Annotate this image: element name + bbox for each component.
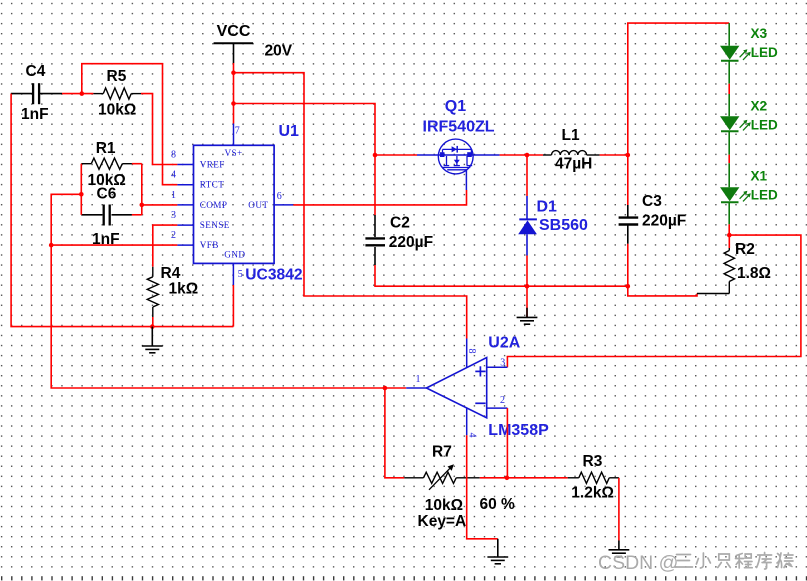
U1 pin stub COMP pin1 [177, 204, 193, 206]
svg-text:IRF540ZL: IRF540ZL [423, 119, 495, 136]
svg-text:R3: R3 [583, 453, 603, 470]
op-amp U1 UC3842 box [194, 145, 275, 263]
wire VFB junction down to op-amp output [51, 245, 406, 388]
svg-text:CSDN @: CSDN @ [598, 552, 678, 574]
svg-text:20V: 20V [265, 43, 293, 60]
svg-text:U1: U1 [279, 123, 300, 140]
svg-text:3: 3 [500, 357, 505, 368]
svg-text:2: 2 [171, 230, 176, 241]
svg-text:220µF: 220µF [389, 234, 433, 251]
svg-text:VCC: VCC [217, 23, 251, 40]
wire LED chain top lead [728, 23, 730, 46]
svg-text:10kΩ: 10kΩ [98, 101, 136, 118]
svg-text:R4: R4 [161, 265, 181, 282]
transistor Q1 IRF540ZL [417, 139, 500, 190]
wire R3 down to ground [618, 478, 620, 550]
capacitor C2 [365, 215, 385, 265]
U1 pin stub VREF pin8 [177, 164, 193, 166]
svg-text:220µF: 220µF [642, 213, 686, 230]
svg-text:7: 7 [235, 126, 240, 137]
ground below op-amp [487, 557, 508, 564]
svg-text:C4: C4 [26, 63, 46, 80]
svg-text:1nF: 1nF [21, 106, 49, 123]
node C3 ground junction [626, 284, 631, 289]
node Q1 drain junction [525, 153, 530, 158]
wire junction down to D1 [526, 155, 528, 196]
svg-text:8: 8 [171, 150, 176, 161]
wire SENSE to R4 [153, 225, 178, 267]
wire op-amp pin4 to ground [467, 435, 498, 557]
wire X3 to X2 [728, 61, 730, 117]
capacitor C3 [619, 155, 639, 244]
svg-text:LED: LED [751, 118, 778, 133]
svg-text:C3: C3 [642, 193, 662, 210]
wire C2 bottom to ground rail [375, 265, 628, 286]
U1 pin stub GND pin5 [232, 263, 234, 285]
wire OUT pin6 to Q1 source [293, 190, 466, 205]
U2A power stub pin4 [466, 408, 468, 435]
svg-text:OUT: OUT [248, 200, 268, 210]
node VFB junction [49, 243, 54, 248]
svg-text:SENSE: SENSE [200, 220, 230, 230]
node VCC junction upper [231, 70, 236, 75]
node op-amp output junction [383, 386, 388, 391]
wire R2 top to op-amp + input [507, 235, 801, 367]
svg-text:4: 4 [467, 433, 478, 438]
capacitor C4 [11, 83, 62, 104]
ground below R4 [142, 327, 163, 353]
resistor R2 [697, 235, 735, 293]
node ground rail junction [150, 324, 155, 329]
svg-text:R5: R5 [107, 68, 127, 85]
svg-text:SB560: SB560 [539, 217, 588, 234]
svg-text:1.8Ω: 1.8Ω [737, 265, 771, 282]
wire C4 left to ground rail [11, 94, 233, 327]
node Q1 gate junction [373, 153, 378, 158]
svg-text:5: 5 [238, 269, 243, 280]
wire R5 right to VREF pin [141, 94, 177, 165]
node L1/C3 junction [626, 153, 631, 158]
watermark CSDN [598, 552, 678, 574]
svg-text:X2: X2 [751, 99, 768, 114]
svg-text:X3: X3 [751, 26, 768, 41]
inductor L1 [543, 151, 600, 155]
wire pin2 down to R7/R3 node [506, 408, 508, 478]
svg-text:L1: L1 [562, 127, 580, 144]
svg-text:RTCT: RTCT [200, 180, 225, 190]
wire VFB junction to U1 pin2 [51, 244, 177, 246]
U1 pin stub SENSE pin3 [177, 224, 193, 226]
U1 pin stub RTCT pin4 [177, 184, 193, 186]
wire VCC to Q1 gate branch [234, 104, 376, 156]
U2A pin stub + input pin3 [487, 366, 508, 368]
capacitor C6 [81, 205, 132, 226]
wire VCC to op-amp V+ (right/down at x=304) [234, 73, 467, 339]
svg-text:D1: D1 [537, 199, 558, 216]
svg-text:1kΩ: 1kΩ [169, 281, 199, 298]
svg-text:8: 8 [466, 349, 477, 354]
potentiometer R7 [404, 464, 480, 490]
svg-text:U2A: U2A [488, 335, 520, 352]
svg-text:VS+: VS+ [225, 148, 243, 158]
wire C2 top branch [374, 155, 376, 215]
wire U1 pin5 to ground rail [232, 285, 234, 327]
svg-text:R1: R1 [96, 140, 116, 157]
wire D1 bottom to ground rail [526, 256, 528, 287]
node COMP junction [140, 203, 145, 208]
LED X1 symbol [720, 187, 751, 202]
wire R7 to R3 [480, 477, 568, 479]
wire left junction to VFB node [51, 194, 81, 245]
wire X1 to R2 [728, 202, 730, 235]
node D1 ground junction [525, 284, 530, 289]
wire junction up to RTCT [82, 64, 178, 185]
U1 pin stub VS+ pin7 [233, 124, 235, 146]
svg-text:VFB: VFB [200, 240, 219, 250]
svg-text:Key=A: Key=A [418, 513, 467, 530]
ground below R3 [609, 550, 630, 557]
node R1/C6 left junction [79, 192, 84, 197]
svg-text:47µH: 47µH [555, 156, 592, 173]
wire Q1 drain to L1/D1 node [500, 154, 543, 156]
svg-text:1: 1 [416, 374, 421, 385]
wire C4 right to R5 [62, 93, 93, 95]
node R7/R3/pin2 junction [505, 476, 510, 481]
wire R1/C6 left side [80, 164, 82, 215]
svg-text:UC3842: UC3842 [245, 267, 303, 284]
wire C3 node up and over to LED chain [628, 23, 729, 155]
svg-text:3: 3 [171, 210, 176, 221]
resistor R1 [81, 158, 132, 169]
U2A pin stub - input pin2 [487, 407, 508, 409]
svg-text:C6: C6 [97, 186, 117, 203]
wire COMP junction to U1 pin1 [142, 204, 178, 206]
svg-text:LM358P: LM358P [488, 422, 549, 439]
svg-text:COMP: COMP [200, 200, 228, 210]
svg-text:1.2kΩ: 1.2kΩ [571, 485, 614, 502]
svg-text:LED: LED [751, 187, 778, 202]
resistor R3 [568, 472, 619, 483]
resistor R5 [93, 88, 141, 99]
wire gate junction to Q1 [375, 154, 417, 156]
svg-text:VREF: VREF [200, 160, 225, 170]
svg-text:R2: R2 [735, 241, 755, 258]
power VCC symbol [214, 23, 254, 63]
svg-text:4: 4 [171, 170, 176, 181]
ground below D1 [517, 286, 538, 324]
svg-text:X1: X1 [751, 168, 768, 183]
svg-text:GND: GND [224, 250, 245, 260]
U1 pin stub VFB pin2 [177, 244, 193, 246]
svg-text:C2: C2 [390, 215, 410, 232]
svg-text:LED: LED [751, 45, 778, 60]
node R2 top junction [727, 233, 732, 238]
svg-text:2: 2 [500, 395, 505, 406]
U1 pin stub OUT pin6 [274, 204, 293, 206]
wire C3 bottom to ground rail [627, 244, 629, 286]
watermark hanzi [675, 553, 794, 570]
wire ground rail jog to R2 bottom [628, 286, 697, 296]
node VCC junction lower [231, 101, 236, 106]
svg-text:6: 6 [277, 191, 282, 202]
wire VCC vertical to U1 pin7 [233, 63, 235, 124]
resistor R4 [147, 267, 158, 317]
svg-text:R7: R7 [432, 444, 452, 461]
wire op-amp output junction down to R7 [385, 388, 404, 478]
svg-text:60 %: 60 % [480, 496, 516, 513]
svg-text:10kΩ: 10kΩ [425, 497, 463, 514]
wire R4 bottom to ground rail [152, 317, 154, 327]
svg-text:Q1: Q1 [445, 98, 466, 115]
wire L1 right to C3 node [600, 154, 628, 156]
LED X2 symbol [720, 116, 751, 131]
LED X3 symbol [720, 46, 751, 61]
U2A pin stub output pin1 [406, 387, 426, 389]
wire X2 to X1 [728, 131, 730, 187]
node C4/R5 junction [80, 91, 85, 96]
U2A power stub pin8 [466, 339, 468, 368]
svg-text:1: 1 [171, 190, 176, 201]
diode D1 SB560 [518, 196, 537, 256]
wire R1/C6 right side [141, 164, 143, 215]
op-amp U2A triangle [426, 358, 486, 418]
